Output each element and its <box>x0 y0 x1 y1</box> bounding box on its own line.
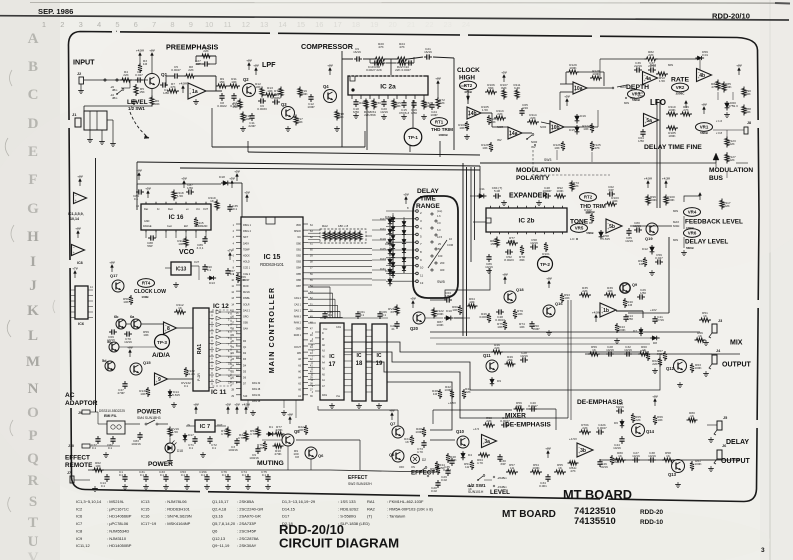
resistor R91 <box>638 257 647 267</box>
pot VR5 <box>571 224 594 235</box>
svg-text:+5V: +5V <box>225 402 230 406</box>
svg-text:10K: 10K <box>554 146 560 150</box>
svg-text:2506C: 2506C <box>676 92 686 96</box>
svg-text:D17: D17 <box>282 514 290 519</box>
svg-text:RA2: RA2 <box>322 224 328 228</box>
grid column numbers <box>42 20 470 29</box>
svg-text:+10V: +10V <box>650 308 657 312</box>
op-amp 9 <box>115 366 193 385</box>
resistor R103 <box>605 196 619 206</box>
capacitor C67 <box>225 268 235 276</box>
svg-text:22K: 22K <box>573 184 579 188</box>
svg-text:4: 4 <box>97 20 101 29</box>
resistor R24 <box>396 42 409 61</box>
svg-text:Q8: Q8 <box>389 452 395 457</box>
svg-text:47K: 47K <box>399 45 405 49</box>
svg-text:+5V: +5V <box>181 176 186 180</box>
wire q20 d10 <box>425 317 470 319</box>
svg-text:1.5K: 1.5K <box>177 194 184 198</box>
resistor R13 <box>264 86 276 97</box>
wire digital frame left <box>95 158 97 412</box>
power +9V pwr <box>195 409 197 414</box>
svg-text:+: + <box>509 134 511 138</box>
capacitor C36 <box>634 61 642 73</box>
wire mix jack <box>700 320 712 354</box>
label DELAY LEVEL <box>685 239 728 251</box>
svg-text:4.7K: 4.7K <box>250 432 257 436</box>
svg-text:+: + <box>698 76 700 80</box>
resistor R80b <box>614 451 626 462</box>
resistor R106 <box>485 83 497 94</box>
svg-text:100K: 100K <box>569 66 577 70</box>
svg-text:: 2SC2240-GR: : 2SC2240-GR <box>237 506 263 511</box>
label FEEDBACK LEVEL <box>685 219 743 231</box>
svg-text:56P: 56P <box>147 244 153 248</box>
power +4.5V <box>139 55 141 60</box>
svg-text:22K: 22K <box>635 418 641 422</box>
power +9V q5 <box>289 419 291 424</box>
svg-text:: 2SA970-GR: : 2SA970-GR <box>237 514 261 519</box>
resistor R62b <box>652 357 662 367</box>
svg-text:+: + <box>645 121 647 125</box>
svg-text:CAS 1: CAS 1 <box>294 303 302 306</box>
ground c48 <box>538 200 540 203</box>
svg-text:D10: D10 <box>446 309 452 313</box>
op-amp 4a mod <box>508 127 522 139</box>
pot VR1 <box>696 119 723 135</box>
svg-text:EFFECT: EFFECT <box>65 455 90 462</box>
svg-text:10K: 10K <box>657 418 663 422</box>
svg-text:100K: 100K <box>556 189 564 193</box>
svg-text:1: 1 <box>42 20 46 29</box>
svg-text:D13: D13 <box>209 281 215 285</box>
svg-text:+5V: +5V <box>229 176 234 180</box>
svg-text:DELAY LEVEL: DELAY LEVEL <box>685 239 728 246</box>
resistor R84 <box>711 80 720 91</box>
svg-text:−: − <box>578 445 580 449</box>
svg-text:J7: J7 <box>67 471 71 475</box>
svg-text:100K: 100K <box>532 466 540 470</box>
svg-text:22K: 22K <box>652 362 658 366</box>
svg-text:Rext: Rext <box>168 208 173 211</box>
capacitor C88 <box>147 235 156 248</box>
wire mid horizontals <box>430 332 700 344</box>
svg-text:0.0047: 0.0047 <box>528 404 538 408</box>
capacitor C35b <box>443 458 454 472</box>
transistor Q9 circle <box>620 283 638 294</box>
svg-text:MAIN CONTROLLER: MAIN CONTROLLER <box>269 287 276 373</box>
svg-text:RDD-10: RDD-10 <box>640 519 664 526</box>
svg-text:A: A <box>28 31 39 47</box>
svg-text:HDCK: HDCK <box>243 255 250 258</box>
switch SW3 dashed <box>530 150 610 175</box>
wire expander bus <box>470 196 486 222</box>
svg-text:ADAPTOR: ADAPTOR <box>65 400 98 407</box>
bus ic15 to ra2 <box>308 230 320 243</box>
pot RT2 clock <box>460 81 477 104</box>
svg-text:IC7: IC7 <box>76 521 83 526</box>
svg-text:Q15: Q15 <box>143 360 151 365</box>
RA1 pins <box>209 312 214 388</box>
svg-text:S: S <box>29 494 37 510</box>
bottom cap row <box>119 470 271 489</box>
svg-text:560P: 560P <box>532 327 539 331</box>
resistor R5 <box>134 84 146 96</box>
capacitor C2b <box>228 438 239 452</box>
resistor R108 <box>487 115 497 125</box>
svg-text:TP-2: TP-2 <box>540 262 550 267</box>
svg-text:INPUT: INPUT <box>73 58 95 67</box>
svg-text:1/50: 1/50 <box>187 186 193 190</box>
switch NOR/INV <box>526 134 537 149</box>
svg-text:GND: GND <box>296 328 302 331</box>
IC15 left pins <box>231 224 251 398</box>
svg-text:DSS310-55D2225: DSS310-55D2225 <box>99 409 125 413</box>
svg-text:22K: 22K <box>188 68 194 72</box>
svg-text:10K: 10K <box>612 199 618 203</box>
capacitor C83 <box>131 432 142 446</box>
resistor R12 <box>255 82 264 97</box>
svg-text:L: L <box>28 328 38 344</box>
svg-text:15K: 15K <box>139 90 145 94</box>
svg-text:−: − <box>698 70 700 74</box>
svg-text:17: 17 <box>329 361 336 368</box>
svg-text:+: + <box>607 227 609 231</box>
svg-text:3b: 3b <box>580 448 586 454</box>
jack J10 <box>68 444 120 448</box>
resistor RV19 <box>168 427 179 438</box>
svg-text:4.7K: 4.7K <box>257 446 264 450</box>
capacitor C48 <box>543 186 552 199</box>
svg-text:22K: 22K <box>439 101 445 105</box>
op-amp 10b <box>550 121 564 133</box>
svg-text:0.02: 0.02 <box>441 478 447 482</box>
capacitor C6 <box>257 98 267 111</box>
svg-text:Q17: Q17 <box>110 273 118 278</box>
IC16 pin labels <box>136 204 209 228</box>
capacitor C63 <box>444 291 452 303</box>
svg-text:10K: 10K <box>459 126 465 130</box>
svg-text:4/16: 4/16 <box>522 106 528 110</box>
IC18 label <box>356 353 363 367</box>
resistor R66 <box>236 273 247 283</box>
svg-text:1.5K: 1.5K <box>659 79 666 83</box>
sw1 level contacts <box>467 475 507 492</box>
svg-text:OUT: OUT <box>217 423 223 427</box>
parts list table <box>76 499 433 548</box>
power +4.3V 5b <box>665 183 667 188</box>
svg-text:V: V <box>28 550 39 560</box>
resistor R9 <box>216 77 228 88</box>
svg-text:100K: 100K <box>592 72 600 76</box>
svg-text:+: + <box>156 380 158 384</box>
svg-text:I: I <box>30 254 36 270</box>
svg-text:MIN: MIN <box>624 101 629 105</box>
svg-text:D7: D7 <box>633 329 637 333</box>
transistor Q1 <box>138 59 168 89</box>
svg-text:OUTPUT: OUTPUT <box>722 362 752 369</box>
svg-text:+5V: +5V <box>244 190 249 194</box>
svg-text:MUD: MUD <box>243 285 249 288</box>
ground lfo1 <box>726 112 728 115</box>
transistor Q16 <box>543 301 563 317</box>
svg-text:1M: 1M <box>639 262 644 266</box>
svg-text:8: 8 <box>170 20 174 29</box>
wire 1b out <box>616 311 643 318</box>
transistor Q20 <box>410 312 425 331</box>
svg-text:22K: 22K <box>724 204 730 208</box>
svg-text:D1,3~13,16,19~29: D1,3~13,16,19~29 <box>282 499 316 504</box>
resistor R62 <box>92 461 104 472</box>
de-emph parts2 <box>616 402 642 423</box>
svg-text:EMI FIL: EMI FIL <box>104 414 118 418</box>
svg-text:J9: J9 <box>78 411 82 415</box>
capacitor C26 <box>637 288 646 300</box>
svg-text:220P: 220P <box>248 124 255 128</box>
svg-text:100P: 100P <box>307 105 314 109</box>
capacitor C65 <box>519 103 528 116</box>
svg-text:RAS 16: RAS 16 <box>252 400 261 403</box>
svg-text:Q14: Q14 <box>646 429 655 434</box>
resistor R96 <box>646 195 658 206</box>
wire vr4 vr6 <box>681 216 687 255</box>
svg-text:+9V: +9V <box>287 412 292 416</box>
resistor R131 <box>181 381 191 388</box>
IC15 right pins <box>294 224 314 398</box>
switch SM4 <box>145 420 168 425</box>
svg-text:10K: 10K <box>231 80 237 84</box>
transistor Q2 <box>243 77 256 97</box>
svg-text:: RM5A-00P103 (10K x 8): : RM5A-00P103 (10K x 8) <box>387 506 433 511</box>
IC2b pins detail <box>485 236 550 273</box>
resistor R35 <box>579 286 591 297</box>
capacitor C70 <box>124 331 132 344</box>
node input <box>104 79 106 81</box>
ground q13 <box>677 482 679 485</box>
transistor Q6 <box>298 425 324 459</box>
wire r82 <box>600 59 700 78</box>
resistor R10b <box>273 444 284 456</box>
wire comp to clock <box>460 85 466 87</box>
svg-text:−: − <box>156 374 158 378</box>
svg-text:D: D <box>28 116 39 132</box>
IC16 pin stubs <box>146 231 206 238</box>
svg-text:100/16: 100/16 <box>131 442 141 446</box>
capacitor C9b <box>249 446 260 460</box>
resistor R7 <box>167 82 179 93</box>
svg-text:12.5: 12.5 <box>437 235 443 239</box>
svg-text:8.0023: 8.0023 <box>504 258 514 262</box>
svg-text:1a: 1a <box>192 89 198 95</box>
svg-text:1.5K: 1.5K <box>172 430 179 434</box>
svg-text:RA2: RA2 <box>367 506 376 511</box>
svg-text:D6: D6 <box>614 421 618 425</box>
svg-text:10K: 10K <box>519 325 525 329</box>
fet 5c <box>107 340 119 352</box>
resistor R9b <box>293 449 298 456</box>
diode D6 <box>614 419 624 428</box>
svg-text:10/16: 10/16 <box>625 239 633 243</box>
ground q19 <box>651 270 653 273</box>
svg-text:P: P <box>28 428 37 444</box>
resistor R117 fb <box>720 199 731 210</box>
transistor Q11 <box>483 353 498 372</box>
power +9V q7 <box>391 415 393 420</box>
svg-text:22K: 22K <box>465 390 471 394</box>
capacitor C32 <box>624 345 632 357</box>
svg-text:O: O <box>27 405 39 421</box>
svg-text:IC 2b: IC 2b <box>519 217 535 224</box>
resistor R90 <box>742 87 752 98</box>
svg-text:3a: 3a <box>484 439 490 445</box>
power +9V ic8 <box>77 233 79 238</box>
capacitor C8b <box>295 455 299 459</box>
LED D2 <box>411 455 427 464</box>
capacitor C82a <box>107 436 115 450</box>
svg-text:: NJM78L06: : NJM78L06 <box>165 499 187 504</box>
svg-text:DB5: DB5 <box>296 273 301 276</box>
svg-text:+5V: +5V <box>501 70 506 74</box>
svg-text:1/50: 1/50 <box>638 139 644 143</box>
resistor R73 <box>570 181 580 192</box>
svg-text:D16: D16 <box>580 114 586 118</box>
svg-text:10/16: 10/16 <box>613 446 621 450</box>
TP-2 <box>538 257 553 272</box>
diode D12 <box>642 245 654 255</box>
ic6 pins <box>70 286 93 318</box>
attenuator switch <box>110 80 130 100</box>
svg-text:+9V: +9V <box>701 102 706 106</box>
IC6 box <box>75 286 88 326</box>
wire input <box>84 79 148 81</box>
power +9V q17 <box>111 267 113 272</box>
label POWER EMI <box>99 409 162 421</box>
resistor R74 <box>519 322 526 329</box>
resistor R58b <box>429 465 440 475</box>
resistor R24b <box>404 435 414 445</box>
label RDD-20/10 CIRCUIT DIAGRAM <box>279 522 399 551</box>
svg-text:47K: 47K <box>594 146 600 150</box>
svg-text:1.6: 1.6 <box>437 214 441 218</box>
svg-text:TONE: TONE <box>570 219 589 226</box>
svg-text:C8: C8 <box>295 455 299 459</box>
svg-text:D12: D12 <box>642 247 648 251</box>
resistor R110 <box>666 105 678 116</box>
svg-text:18: 18 <box>356 361 363 367</box>
svg-text:RAM 1: RAM 1 <box>294 334 302 337</box>
svg-text:4a: 4a <box>645 76 651 82</box>
svg-text:COM: COM <box>447 243 453 247</box>
capacitor C89 <box>197 236 208 250</box>
resistor R1 <box>589 221 593 225</box>
RAM top bypass <box>320 310 388 319</box>
svg-text:1M: 1M <box>628 303 633 307</box>
resistor R82 <box>645 50 658 61</box>
pot VR2 <box>672 83 689 95</box>
resistor R46 <box>491 343 503 354</box>
svg-text:0.0033: 0.0033 <box>257 107 267 111</box>
IC2b box <box>486 208 567 232</box>
power +5V ic16 <box>147 193 149 198</box>
svg-text:IC8: IC8 <box>77 261 83 265</box>
svg-text:IC 2a: IC 2a <box>380 84 396 91</box>
svg-text:IC1,3~5,10,14: IC1,3~5,10,14 <box>76 499 102 504</box>
capacitor C64 <box>638 129 646 143</box>
svg-text:10KB: 10KB <box>686 226 695 230</box>
svg-text:POWER: POWER <box>148 461 173 468</box>
svg-text:+9V: +9V <box>546 276 551 280</box>
svg-text:100/16: 100/16 <box>228 448 238 452</box>
svg-text:TP-3: TP-3 <box>157 340 167 345</box>
svg-text:16/16: 16/16 <box>353 50 361 54</box>
svg-text:+4.3V: +4.3V <box>662 176 670 180</box>
level dashed arrow <box>130 112 149 138</box>
capacitor C90 <box>202 264 212 272</box>
wire expander to mixer <box>445 268 490 300</box>
svg-text:VR5: VR5 <box>575 226 584 231</box>
IC19 box <box>372 324 387 401</box>
svg-text:GRO: GRO <box>243 316 249 319</box>
svg-text:+: + <box>644 79 646 83</box>
svg-text:D9: D9 <box>497 379 501 383</box>
diode D15 <box>569 125 579 135</box>
svg-text:+9V: +9V <box>127 345 132 349</box>
svg-text:100K: 100K <box>694 366 702 370</box>
resistor R87 <box>436 320 444 327</box>
svg-text:MT BOARD: MT BOARD <box>502 509 556 520</box>
label DELAY TIME RANGE <box>416 188 440 210</box>
resistor R51b <box>464 460 474 470</box>
svg-text:100K: 100K <box>436 312 444 316</box>
svg-text:5.08: 5.08 <box>494 189 500 193</box>
svg-text:J5: J5 <box>723 416 727 420</box>
svg-text:E: E <box>28 144 38 160</box>
svg-text:EM: EM <box>184 225 188 228</box>
svg-text:1Ω: 1Ω <box>510 466 515 470</box>
svg-text:13: 13 <box>260 20 268 29</box>
diode matrix column 1 <box>385 215 395 278</box>
svg-text:: 2SA733P: : 2SA733P <box>237 521 256 526</box>
resistor R102 <box>584 208 594 223</box>
svg-text:82K: 82K <box>274 92 280 96</box>
svg-text:+4.5V: +4.5V <box>136 48 144 52</box>
resistor R75 <box>497 320 507 330</box>
power +4.5V 5b <box>647 183 649 188</box>
resistor R46b <box>479 312 491 323</box>
transistor Q8 <box>389 450 404 462</box>
label LD <box>570 237 578 241</box>
svg-text:: SLP-1838 (LED): : SLP-1838 (LED) <box>338 521 370 526</box>
svg-text:+9V: +9V <box>435 76 440 80</box>
label MODULATION BUS <box>709 167 753 182</box>
IC12 gate column <box>216 310 239 384</box>
svg-text:10/16: 10/16 <box>648 454 656 458</box>
svg-text:1M: 1M <box>433 392 438 396</box>
svg-text:DB0: DB0 <box>296 242 301 245</box>
svg-text:100K: 100K <box>300 92 308 96</box>
svg-text:IC: IC <box>329 354 334 360</box>
svg-text:x 0.8: x 0.8 <box>716 131 723 135</box>
svg-text:0.1: 0.1 <box>134 197 139 201</box>
svg-text:10: 10 <box>205 20 213 29</box>
svg-text:REMOTE: REMOTE <box>65 462 93 469</box>
svg-text:CAS: CAS <box>336 326 341 329</box>
modulation bus wires <box>640 150 722 163</box>
svg-text:0.1: 0.1 <box>189 446 194 450</box>
jack J9 <box>78 410 98 415</box>
svg-text:VR1: VR1 <box>700 125 709 130</box>
svg-text:4b: 4b <box>699 73 705 79</box>
